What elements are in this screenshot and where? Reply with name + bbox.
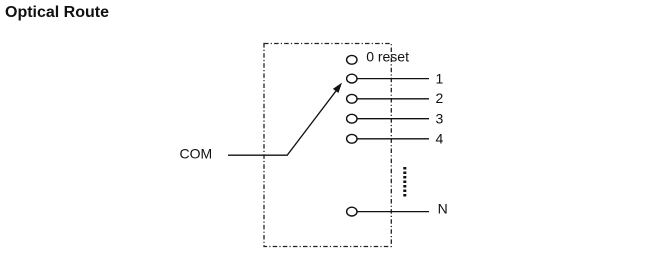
svg-text:2: 2 [436,90,444,106]
svg-text:0 reset: 0 reset [366,49,409,65]
svg-text:4: 4 [436,131,444,147]
svg-text:Optical Route: Optical Route [5,4,109,21]
svg-text:COM: COM [180,145,213,161]
svg-text:3: 3 [436,111,444,127]
svg-text:N: N [438,201,448,217]
svg-text:1: 1 [436,70,444,86]
